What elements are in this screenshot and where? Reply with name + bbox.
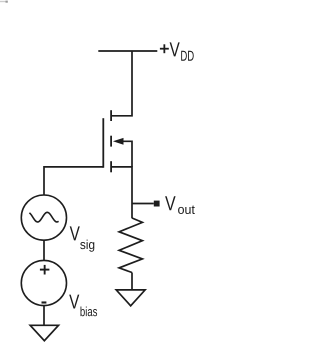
wire Vout stub: [132, 203, 154, 205]
wire source to output node: [111, 167, 132, 218]
Vbias minus sign: [42, 301, 47, 303]
wire resistor to ground: [131, 273, 133, 290]
wire Vsig to Vbias: [43, 240, 45, 260]
transistor M1 gate line: [102, 118, 104, 168]
label Vsig V: [70, 226, 80, 240]
resistor R1: [119, 218, 142, 273]
node +VDD rail: [98, 50, 157, 52]
scan artifact top-left: [0, 1, 6, 2]
label +VDD plus sign: [160, 44, 169, 53]
source Vbias circle: [21, 260, 66, 305]
label Vbias bias sub: [80, 306, 84, 316]
wire Vbias to ground: [43, 306, 45, 326]
label VDD V: [170, 42, 180, 56]
ground right: [116, 290, 145, 306]
transistor M1 body channel bar: [110, 136, 112, 147]
label Vout out sub: [178, 207, 184, 214]
transistor M1 source channel bar: [110, 161, 112, 172]
wire body to source node: [121, 141, 132, 167]
source Vsig circle: [21, 195, 66, 240]
Vsig sine symbol: [29, 212, 58, 222]
wire VDD rail to drain: [111, 51, 132, 116]
transistor M1 drain channel bar: [110, 110, 112, 121]
wire gate to Vsig: [44, 167, 103, 195]
node Vout square: [154, 201, 160, 207]
label Vbias V: [69, 295, 79, 309]
Vbias plus sign: [40, 269, 50, 271]
label Vsig sig sub: [80, 242, 85, 249]
label VDD DD sub: [181, 51, 187, 61]
label Vout V: [165, 196, 175, 210]
transistor M1 body arrow: [113, 138, 124, 145]
ground left: [30, 325, 58, 340]
